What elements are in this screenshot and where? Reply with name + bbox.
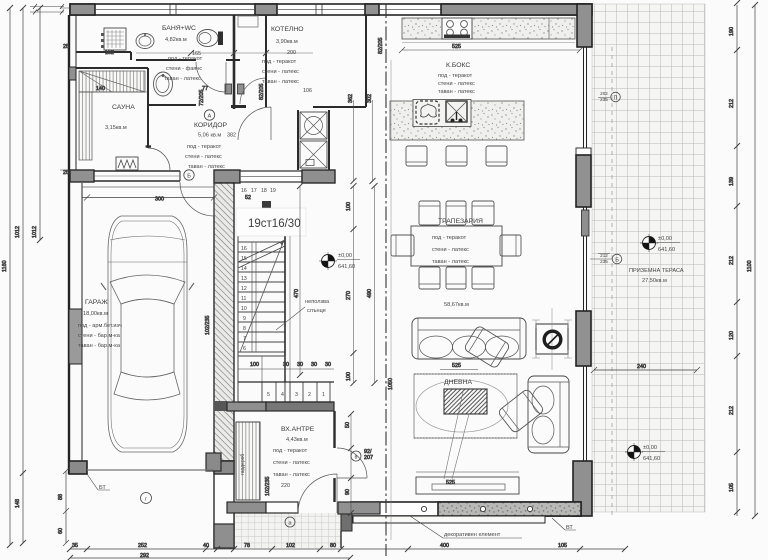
bottom ledge below decorative wall xyxy=(353,516,545,523)
shower taps xyxy=(101,33,104,48)
svg-text:78: 78 xyxy=(244,543,250,549)
svg-text:102: 102 xyxy=(286,543,295,549)
antre right dim line xyxy=(350,414,352,513)
svg-text:641,60: 641,60 xyxy=(338,264,355,270)
window mullion block xyxy=(582,210,590,236)
sofa 2 vertical xyxy=(528,376,569,453)
stair block top wall xyxy=(214,170,240,183)
right dim line total xyxy=(754,5,756,516)
elevation marker terrace bottom xyxy=(625,443,665,462)
kitchen island xyxy=(390,101,524,140)
island hob outer box xyxy=(413,100,471,127)
svg-text:106: 106 xyxy=(303,88,312,94)
svg-text:190: 190 xyxy=(729,27,735,36)
bottom decorative wall speckled part xyxy=(438,502,581,516)
antre bottom wall pier right xyxy=(338,502,380,514)
left wall xyxy=(68,15,70,474)
svg-text:207: 207 xyxy=(364,455,373,461)
svg-text:140: 140 xyxy=(96,86,105,92)
terrace tiled floor xyxy=(592,4,705,512)
antre right wall upper segment xyxy=(333,411,335,448)
bottom-right corner block xyxy=(573,461,592,516)
marker garage door xyxy=(141,493,152,504)
car hood lines xyxy=(110,236,185,240)
car rear window xyxy=(114,372,180,400)
svg-text:±0,00: ±0,00 xyxy=(658,236,672,242)
svg-text:таван - бар.м-ка: таван - бар.м-ка xyxy=(78,343,121,349)
svg-text:50: 50 xyxy=(345,422,351,428)
svg-text:14: 14 xyxy=(241,266,247,272)
svg-text:102/235: 102/235 xyxy=(205,316,211,336)
stair top window band xyxy=(240,171,302,182)
tread numbers lower xyxy=(267,392,325,398)
svg-text:88: 88 xyxy=(58,494,64,500)
svg-text:82/205: 82/205 xyxy=(259,84,265,101)
interior vertical dims xyxy=(299,186,301,375)
svg-text:17: 17 xyxy=(251,188,257,194)
sauna door arc xyxy=(148,148,170,170)
tread number row at top of upper flight xyxy=(241,188,276,194)
svg-text:200: 200 xyxy=(287,50,296,56)
svg-text:5: 5 xyxy=(267,392,270,398)
svg-text:525: 525 xyxy=(452,44,461,50)
svg-text:18: 18 xyxy=(261,188,267,194)
svg-text:ВХ.АНТРЕ: ВХ.АНТРЕ xyxy=(281,426,315,433)
garage inner top line xyxy=(82,186,214,188)
stair flight side walls xyxy=(284,232,286,382)
corridor-garage door arc xyxy=(180,182,214,216)
svg-text:ДНЕВНА: ДНЕВНА xyxy=(444,379,472,386)
top-left corner mini dims xyxy=(30,7,64,13)
sauna bench left xyxy=(79,92,92,160)
top-right corner block xyxy=(577,4,592,47)
svg-text:60: 60 xyxy=(58,528,64,534)
stair walk diagonal line xyxy=(240,240,284,352)
bathroom shower niche bottom wall xyxy=(76,51,131,53)
svg-text:18,00кв.м: 18,00кв.м xyxy=(83,311,108,317)
svg-text:82/205: 82/205 xyxy=(378,38,384,55)
tv wall dim 525 xyxy=(416,471,519,473)
strip cabinet xyxy=(238,16,258,27)
entrance sidelight xyxy=(266,502,298,513)
svg-text:стени - латекс: стени - латекс xyxy=(438,81,475,87)
svg-text:3: 3 xyxy=(295,392,298,398)
svg-text:таван - латекс: таван - латекс xyxy=(188,164,225,170)
svg-text:под - арм.бет.изч: под - арм.бет.изч xyxy=(78,323,122,329)
car inner body line xyxy=(111,221,184,448)
svg-text:148: 148 xyxy=(15,499,21,508)
left dim line mid xyxy=(22,8,24,543)
niche right wall xyxy=(328,110,330,170)
bathroom right wall xyxy=(233,15,236,109)
svg-text:гардероб: гардероб xyxy=(240,454,246,475)
stair lower flight bounds xyxy=(238,382,334,402)
svg-text:25: 25 xyxy=(63,170,69,176)
antre bottom wall xyxy=(227,502,266,513)
svg-text:ГАРАЖ: ГАРАЖ xyxy=(85,299,108,306)
svg-text:72/205: 72/205 xyxy=(199,90,205,107)
bottom dim line xyxy=(70,548,625,550)
niche bottom wall band xyxy=(302,170,335,183)
terrace dim 240 xyxy=(591,367,700,373)
dining chair left xyxy=(391,235,414,256)
car mirrors xyxy=(101,283,194,290)
svg-text:ПРИЗЕМНА ТЕРАСА: ПРИЗЕМНА ТЕРАСА xyxy=(629,268,684,274)
svg-text:16: 16 xyxy=(241,246,247,252)
car body xyxy=(108,216,187,452)
dining chair right xyxy=(500,235,521,256)
dining table xyxy=(411,226,502,266)
svg-text:470: 470 xyxy=(294,289,300,298)
svg-text:Б: Б xyxy=(615,258,619,264)
stair upper flight treads xyxy=(238,242,285,352)
garage door cap xyxy=(214,461,234,474)
svg-text:13: 13 xyxy=(241,276,247,282)
svg-text:27,50кв.м: 27,50кв.м xyxy=(642,278,667,284)
svg-text:КОТЕЛНО: КОТЕЛНО xyxy=(271,26,304,33)
shower tray xyxy=(104,28,126,50)
left dim line outer xyxy=(9,8,11,545)
svg-text:400: 400 xyxy=(440,543,449,549)
svg-text:102/235: 102/235 xyxy=(265,477,271,497)
svg-text:таван - латекс: таван - латекс xyxy=(164,76,201,82)
right wall window segment 1 xyxy=(584,47,587,148)
cooktop xyxy=(442,18,472,39)
svg-text:ТРАПЕЗАРИЯ: ТРАПЕЗАРИЯ xyxy=(438,218,483,225)
svg-text:641,60: 641,60 xyxy=(643,456,660,462)
stair lower flight treads xyxy=(262,382,330,402)
right wall window segment 3 xyxy=(584,366,587,461)
svg-text:105: 105 xyxy=(558,543,567,549)
right wall pier 2 xyxy=(576,311,591,366)
svg-text:1012: 1012 xyxy=(15,226,21,238)
svg-text:декоративен елемент: декоративен елемент xyxy=(444,532,501,538)
antre-living door arc xyxy=(337,448,367,478)
svg-text:стени - бар.м-ка: стени - бар.м-ка xyxy=(78,333,121,339)
garage width dim xyxy=(82,195,217,201)
column circles on decorative band xyxy=(361,506,532,511)
section dash line vertical xyxy=(385,4,387,556)
marker A xyxy=(204,110,214,120)
svg-text:100: 100 xyxy=(346,202,352,211)
svg-text:К.БОКС: К.БОКС xyxy=(446,62,470,69)
sauna heater xyxy=(116,157,138,170)
svg-text:252: 252 xyxy=(138,543,147,549)
svg-text:неползва: неползва xyxy=(305,299,330,305)
right dim line segments xyxy=(736,5,738,516)
top wall pier at kitchen wall start xyxy=(365,4,379,15)
svg-text:±0,00: ±0,00 xyxy=(338,253,352,259)
svg-text:таван - латекс: таван - латекс xyxy=(438,89,475,95)
marker P right xyxy=(611,92,621,102)
bathroom bottom wall xyxy=(136,59,240,61)
porch tiles right of entry xyxy=(429,512,431,514)
car windshield xyxy=(110,275,185,304)
corridor bottom wall / garage top wall xyxy=(70,170,94,182)
svg-text:525: 525 xyxy=(452,363,461,369)
stairs label box xyxy=(236,208,306,236)
top wall dark band over kitchen xyxy=(441,4,586,15)
bathroom wall jog xyxy=(130,52,132,60)
dash line terrace bottom xyxy=(611,47,613,515)
svg-text:под - теракот: под - теракот xyxy=(432,235,467,241)
svg-text:в: в xyxy=(355,455,358,461)
elevation marker dining xyxy=(319,252,360,270)
bar chair 3 xyxy=(486,146,507,166)
antre wall left cap xyxy=(214,401,227,411)
svg-text:202: 202 xyxy=(600,91,608,96)
svg-text:80: 80 xyxy=(330,543,336,549)
rug xyxy=(414,374,517,438)
appliance niche left wall xyxy=(297,110,299,170)
svg-text:292: 292 xyxy=(140,553,149,559)
svg-text:БАНЯ+WC: БАНЯ+WC xyxy=(162,25,196,32)
coffee table xyxy=(444,389,487,414)
bathroom door arc xyxy=(196,62,226,92)
svg-text:30: 30 xyxy=(325,362,331,368)
garage door line xyxy=(87,469,214,471)
entry door arc xyxy=(298,474,337,513)
svg-text:2: 2 xyxy=(308,392,311,398)
wall below garage door: outline xyxy=(214,461,234,548)
svg-text:10: 10 xyxy=(241,306,247,312)
kotelno bottom wall xyxy=(313,106,366,108)
svg-text:г: г xyxy=(145,497,147,503)
svg-text:КОРИДОР: КОРИДОР xyxy=(194,122,227,129)
counter divider line xyxy=(548,18,550,39)
bottom dim line 2 xyxy=(70,557,350,559)
svg-text:стени - латекс: стени - латекс xyxy=(185,154,222,160)
svg-text:362: 362 xyxy=(348,94,354,103)
wall under bathroom to corridor xyxy=(148,104,196,106)
svg-text:8: 8 xyxy=(243,326,246,332)
stair cut line xyxy=(238,240,285,268)
armchair 1 xyxy=(463,325,510,369)
svg-text:таван - латекс: таван - латекс xyxy=(273,472,310,478)
marker B right xyxy=(612,254,622,264)
top wall pier mid xyxy=(255,4,277,15)
left wall pier sauna top xyxy=(69,67,76,80)
left lower dims 88 60 xyxy=(63,468,69,546)
armchair 2 xyxy=(497,388,544,433)
bar chair 1 xyxy=(406,146,427,166)
antre closet xyxy=(236,422,260,500)
marker B xyxy=(184,170,194,180)
svg-text:641,60: 641,60 xyxy=(658,247,675,253)
svg-text:220: 220 xyxy=(281,483,290,489)
left wall tick marks xyxy=(60,8,70,170)
svg-text:100: 100 xyxy=(250,362,259,368)
kotelno right wall xyxy=(365,15,367,107)
svg-text:19: 19 xyxy=(270,188,276,194)
svg-text:Б: Б xyxy=(187,174,191,180)
washing machine 2 xyxy=(300,141,327,168)
svg-text:±0,00: ±0,00 xyxy=(643,445,657,451)
antre right wall lower segment xyxy=(333,478,335,502)
svg-text:30: 30 xyxy=(311,362,317,368)
svg-text:19ст16/30: 19ст16/30 xyxy=(248,218,301,230)
svg-text:90: 90 xyxy=(345,489,351,495)
porch wall gray bottom xyxy=(214,524,234,548)
svg-text:58,67кв.м: 58,67кв.м xyxy=(444,302,469,308)
garage door jamb cap xyxy=(206,453,221,471)
sauna bench diagonal xyxy=(79,71,145,92)
newel post xyxy=(262,201,271,210)
right wall pier 1 xyxy=(576,155,591,207)
svg-text:40: 40 xyxy=(203,543,209,549)
svg-text:1: 1 xyxy=(322,392,325,398)
svg-text:САУНА: САУНА xyxy=(112,104,135,111)
svg-text:5,06 кв.м: 5,06 кв.м xyxy=(198,133,221,139)
sauna top wall xyxy=(76,67,148,69)
island sink xyxy=(446,101,467,122)
door letter markers xyxy=(141,91,622,527)
svg-text:4,43кв.м: 4,43кв.м xyxy=(286,437,308,443)
left dim line inner xyxy=(39,8,41,240)
fireplace xyxy=(536,324,568,354)
dining chairs top row xyxy=(419,201,440,225)
svg-text:525: 525 xyxy=(446,480,455,486)
svg-text:382: 382 xyxy=(227,133,236,139)
sofa 3-seat xyxy=(412,318,526,359)
svg-text:3,90кв.м: 3,90кв.м xyxy=(276,39,298,45)
sauna bench hatch top xyxy=(79,71,145,92)
svg-text:стени - фаянс: стени - фаянс xyxy=(166,66,202,72)
svg-text:9: 9 xyxy=(243,316,246,322)
elevation marker terrace xyxy=(640,234,680,253)
antre north wall under stairs xyxy=(227,402,266,411)
svg-text:3,15кв.м: 3,15кв.м xyxy=(105,125,127,131)
svg-text:под - теракот: под - теракот xyxy=(273,448,308,454)
car roof xyxy=(121,299,174,377)
bathroom washbasin xyxy=(136,34,154,49)
light leader lines xyxy=(444,392,469,479)
stair landing xyxy=(238,356,285,402)
bottom decorative wall band xyxy=(351,502,581,516)
svg-text:стени - латекс: стени - латекс xyxy=(432,247,469,253)
sauna right wall xyxy=(147,68,149,148)
svg-text:212: 212 xyxy=(729,406,735,415)
svg-text:таван - латекс: таван - латекс xyxy=(432,259,469,265)
svg-text:12: 12 xyxy=(241,286,247,292)
wall cap below strip xyxy=(231,105,246,108)
svg-text:302: 302 xyxy=(367,94,373,103)
top band window glass lines xyxy=(95,9,441,11)
svg-text:240: 240 xyxy=(637,364,646,370)
left wall pier mid xyxy=(69,309,82,364)
top wall pier left xyxy=(70,4,95,15)
svg-text:4,82кв.м: 4,82кв.м xyxy=(165,37,187,43)
svg-text:30: 30 xyxy=(283,362,289,368)
svg-text:6: 6 xyxy=(243,346,246,352)
svg-text:105: 105 xyxy=(729,483,735,492)
svg-text:152: 152 xyxy=(105,50,114,56)
dining chairs bottom row xyxy=(419,267,440,289)
svg-text:П: П xyxy=(614,96,618,102)
svg-text:под - теракот: под - теракот xyxy=(168,56,203,62)
bar chair 2 xyxy=(446,146,467,166)
svg-text:под - теракот: под - теракот xyxy=(187,144,222,150)
svg-text:212: 212 xyxy=(729,256,735,265)
svg-text:15: 15 xyxy=(241,256,247,262)
marker v antre xyxy=(351,451,361,461)
tread numbers upper xyxy=(241,246,247,352)
svg-text:100: 100 xyxy=(346,372,352,381)
svg-text:35: 35 xyxy=(72,543,78,549)
marker porch xyxy=(285,517,295,527)
svg-text:под - теракот: под - теракот xyxy=(438,73,473,79)
tv cabinet xyxy=(416,477,519,494)
svg-text:стени - латекс: стени - латекс xyxy=(273,460,310,466)
svg-text:1160: 1160 xyxy=(2,260,8,272)
kitchen counter dim 525 xyxy=(399,47,583,53)
banya-kotelno divider xyxy=(265,15,267,107)
stair/garage hatched wall xyxy=(214,183,234,461)
entrance porch tiles xyxy=(234,513,341,548)
toilet xyxy=(197,30,218,47)
right wall sill xyxy=(576,148,591,155)
svg-text:235: 235 xyxy=(600,259,608,264)
svg-text:139: 139 xyxy=(729,177,735,186)
island gas burner xyxy=(416,101,439,124)
left wall bottom cap xyxy=(69,461,87,474)
shower grid xyxy=(106,30,124,48)
washing machine 1 xyxy=(300,112,327,139)
door jamb piers xyxy=(225,84,232,94)
svg-text:300: 300 xyxy=(155,197,164,203)
svg-text:таван - латекс: таван - латекс xyxy=(262,79,299,85)
svg-text:212: 212 xyxy=(729,99,735,108)
svg-text:120: 120 xyxy=(729,331,735,340)
svg-text:490: 490 xyxy=(367,289,373,298)
svg-text:11: 11 xyxy=(241,296,246,302)
top wall band xyxy=(70,4,592,15)
strip door arc xyxy=(240,78,266,104)
kitchen counter top xyxy=(402,18,575,39)
svg-text:стени - латекс: стени - латекс xyxy=(262,69,299,75)
svg-text:270: 270 xyxy=(346,291,352,300)
svg-text:1012: 1012 xyxy=(32,226,38,238)
right wall window segment 2 xyxy=(584,207,587,311)
kotelno door arc xyxy=(238,107,271,140)
porch right wall xyxy=(341,514,352,531)
svg-text:7: 7 xyxy=(243,336,246,342)
svg-text:25: 25 xyxy=(63,44,69,50)
stair stringer lines xyxy=(252,242,256,352)
svg-text:52: 52 xyxy=(245,195,251,201)
svg-text:4: 4 xyxy=(281,392,284,398)
svg-text:под - теракот: под - теракот xyxy=(262,59,297,65)
svg-text:слънце: слънце xyxy=(307,308,326,314)
svg-text:1100: 1100 xyxy=(747,260,753,272)
corridor washbasin xyxy=(154,72,173,96)
svg-text:16: 16 xyxy=(241,188,247,194)
svg-text:А: А xyxy=(208,114,212,120)
